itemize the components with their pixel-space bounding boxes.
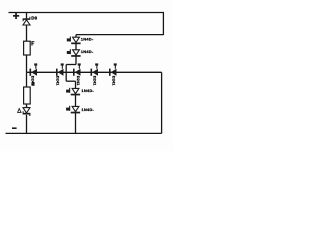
wire lower center to rail (75, 113, 77, 133)
label D8 glyph (66, 88, 70, 93)
svg-text:D241: D241 (93, 76, 98, 86)
label D5 tick (114, 63, 117, 68)
plus terminal (13, 13, 19, 19)
diode D11 (lower center) (71, 106, 80, 113)
svg-text:1N4D-: 1N4D- (81, 88, 94, 93)
wire R1 to row (26, 55, 28, 72)
wire zener D10 to bottom rail (26, 115, 28, 134)
diode D4 (row) (91, 69, 99, 76)
wire between upper diodes (75, 44, 77, 50)
diode D5 (row) (109, 69, 117, 76)
svg-text:D241: D241 (112, 76, 117, 86)
wire lower center stub (75, 81, 77, 88)
diode D8 (lower center) (71, 88, 80, 95)
diode D3 (row) (73, 69, 81, 76)
resistor R2 (24, 87, 31, 104)
wire left column top (26, 13, 28, 19)
wire bottom-right vertical (161, 72, 163, 133)
label D10 triangle glyph (18, 109, 21, 113)
wire upper return line y=35 (76, 34, 163, 36)
wire bottom rail (6, 132, 162, 134)
svg-text:1N4D-: 1N4D- (81, 107, 94, 112)
diode D1 (row) (30, 69, 38, 76)
svg-text:1N4D-: 1N4D- (81, 49, 94, 54)
svg-text:D241: D241 (30, 76, 35, 86)
wire diode row horizontal (27, 71, 162, 73)
wire jog vertical (65, 65, 67, 82)
label D6 glyph (67, 37, 71, 42)
wire R2 to zener D10 (26, 104, 28, 108)
wire below upper diode pair (75, 57, 77, 65)
wire jog bottom horizontal (66, 80, 75, 82)
wire center column upper stub (75, 35, 77, 37)
wire jog left horizontal (66, 64, 76, 66)
wire zener D9 to R1 (26, 25, 28, 41)
diode D7 (upper center) (71, 50, 80, 57)
wire top rail (9, 12, 165, 14)
diode D6 (upper center) (71, 37, 80, 44)
resistor R1 (24, 41, 31, 55)
label D2 tick (61, 63, 64, 68)
label D3 tick (78, 63, 81, 68)
label D1 tick (34, 63, 37, 68)
svg-text:D241: D241 (55, 76, 60, 86)
label D4 tick (95, 63, 98, 68)
diode D2 (row) (56, 69, 64, 76)
svg-text:D241: D241 (76, 76, 81, 86)
svg-text:D9: D9 (31, 16, 37, 21)
minus terminal (12, 127, 17, 129)
zener D9 (23, 17, 31, 25)
svg-text:1N4D-: 1N4D- (81, 37, 94, 42)
wire top-right vertical (162, 13, 164, 36)
wire between lower diodes (75, 95, 77, 106)
label D11 glyph (66, 106, 70, 111)
label R1 (31, 41, 34, 45)
wire row to R2 (26, 72, 28, 87)
zener D10 (23, 107, 31, 116)
label D7 glyph (67, 49, 71, 54)
